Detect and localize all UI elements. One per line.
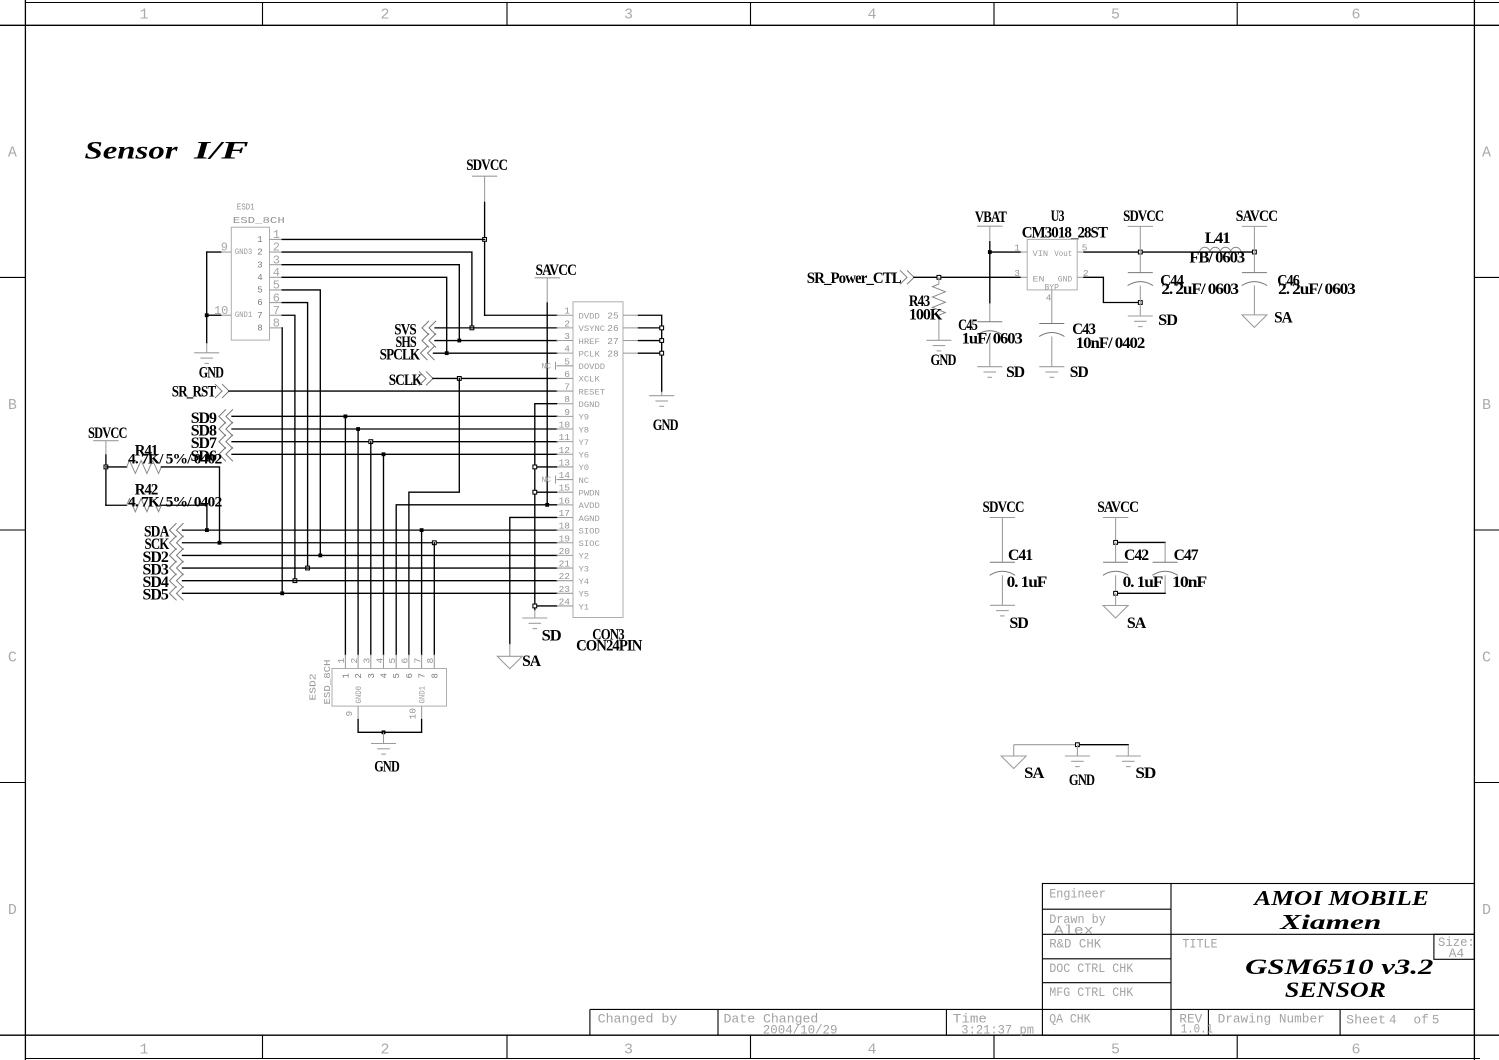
svg-text:NC: NC <box>579 477 590 486</box>
ground symbol SD (below CON3) <box>522 618 561 644</box>
svg-text:8: 8 <box>564 394 570 405</box>
svg-text:L41: L41 <box>1205 230 1231 247</box>
svg-text:NC: NC <box>542 476 552 485</box>
svg-text:2. 2uF/ 0603: 2. 2uF/ 0603 <box>1161 281 1239 298</box>
svg-text:ESD_8CH: ESD_8CH <box>233 215 285 226</box>
svg-text:NC: NC <box>542 362 552 371</box>
svg-text:SIOD: SIOD <box>579 527 601 536</box>
svg-text:EN: EN <box>1033 276 1045 285</box>
svg-text:4: 4 <box>564 344 570 355</box>
ground symbol SA (C46) <box>1242 310 1293 328</box>
svg-text:6: 6 <box>257 298 262 308</box>
wire U3 GND pin2 to C44 <box>1084 277 1142 304</box>
power symbol SAVCC (top right) <box>1236 208 1278 252</box>
wire ESD1 pin5 to SD2 <box>282 290 320 555</box>
svg-text:XCLK: XCLK <box>579 376 601 385</box>
power symbol SDVCC (top right) <box>1123 208 1164 252</box>
wire Vout to SDVCC / L41 <box>1084 250 1200 254</box>
svg-text:Y2: Y2 <box>579 553 590 562</box>
svg-text:SD: SD <box>542 627 561 644</box>
wire AVDD row to ESD2 pin5 <box>396 505 556 655</box>
svg-text:Engineer: Engineer <box>1049 887 1106 901</box>
svg-text:GND: GND <box>1058 276 1073 285</box>
svg-text:6: 6 <box>564 369 570 380</box>
svg-text:C42: C42 <box>1124 547 1149 564</box>
net label SD4 <box>143 574 558 591</box>
net label SHS <box>396 334 558 351</box>
power symbol SAVCC (mid) <box>535 262 577 303</box>
power symbol SDVCC (top) <box>466 157 507 202</box>
svg-text:10: 10 <box>559 420 571 431</box>
svg-text:2: 2 <box>380 7 389 24</box>
svg-text:VIN: VIN <box>1033 250 1049 259</box>
power symbol SAVCC (decoupling) <box>1097 499 1138 542</box>
svg-text:Xiamen: Xiamen <box>1279 910 1382 934</box>
svg-text:3: 3 <box>564 331 570 342</box>
svg-text:Y6: Y6 <box>579 452 590 461</box>
svg-text:10nF: 10nF <box>1172 574 1207 591</box>
svg-text:24: 24 <box>559 596 571 607</box>
wire SCLK to ESD2 pin6 <box>409 378 459 654</box>
svg-text:MFG CTRL CHK: MFG CTRL CHK <box>1049 986 1133 1000</box>
svg-text:GND3: GND3 <box>235 248 253 257</box>
svg-text:Y9: Y9 <box>579 414 590 423</box>
svg-text:B: B <box>8 397 17 414</box>
svg-text:4: 4 <box>1046 293 1052 304</box>
svg-text:C: C <box>1482 650 1491 667</box>
svg-text:2: 2 <box>349 658 360 664</box>
wire R41 to SCK <box>161 467 219 543</box>
svg-text:2: 2 <box>564 318 570 329</box>
svg-text:5: 5 <box>387 658 398 664</box>
svg-text:3: 3 <box>1014 268 1020 279</box>
svg-text:Y4: Y4 <box>579 578 590 587</box>
svg-text:SAVCC: SAVCC <box>536 262 577 279</box>
ground symbol SD (C45) <box>977 364 1024 381</box>
svg-text:SA: SA <box>1024 765 1045 782</box>
svg-text:C41: C41 <box>1008 547 1033 564</box>
inductor L41 FB/0603 <box>1189 230 1256 267</box>
net label SR_Power_CTL <box>807 270 1021 287</box>
svg-text:10: 10 <box>408 708 419 720</box>
svg-text:Sensor: Sensor <box>85 136 179 165</box>
svg-text:FB/ 0603: FB/ 0603 <box>1189 250 1245 267</box>
svg-text:A4: A4 <box>1449 947 1464 961</box>
wire C42/C47 bottom to SA <box>1114 591 1165 605</box>
resistor R42 4.7K/5%/0402 <box>106 482 222 512</box>
svg-text:3:21:37 pm: 3:21:37 pm <box>961 1023 1034 1037</box>
svg-text:4: 4 <box>257 273 262 283</box>
capacitor C41 0.1uF <box>990 547 1048 605</box>
svg-text:SDVCC: SDVCC <box>466 157 507 174</box>
svg-text:GND0: GND0 <box>355 686 364 704</box>
svg-text:4: 4 <box>374 658 385 664</box>
svg-text:3: 3 <box>362 658 373 664</box>
net label SD3 <box>143 561 558 578</box>
ground symbol GND (ESD2) <box>371 744 399 776</box>
svg-text:15: 15 <box>559 483 571 494</box>
svg-text:8: 8 <box>257 323 262 333</box>
svg-text:AVDD: AVDD <box>579 502 601 511</box>
svg-text:SA: SA <box>522 653 541 670</box>
svg-text:SR_Power_CTL: SR_Power_CTL <box>807 270 901 287</box>
svg-text:GND: GND <box>931 352 957 369</box>
svg-text:2: 2 <box>354 673 364 678</box>
svg-text:3: 3 <box>624 1042 633 1059</box>
svg-text:AGND: AGND <box>579 515 601 524</box>
svg-text:1: 1 <box>139 7 148 24</box>
svg-text:9: 9 <box>221 241 228 255</box>
net label SCLK <box>389 371 557 388</box>
svg-text:4: 4 <box>380 673 390 678</box>
svg-text:14: 14 <box>559 470 571 481</box>
svg-text:C: C <box>8 650 17 667</box>
svg-text:DGND: DGND <box>579 401 601 410</box>
net label SDA <box>144 523 557 540</box>
IC ESD1 ESD_8CH <box>214 202 285 341</box>
ground symbol SD (C43) <box>1039 364 1088 381</box>
svg-text:100K: 100K <box>909 306 943 323</box>
svg-text:ESD2: ESD2 <box>308 673 319 700</box>
title block table <box>590 884 1475 1036</box>
ground symbol SA (C42) <box>1103 606 1147 633</box>
svg-text:4: 4 <box>1389 1014 1397 1028</box>
IC U3 CM3018_28ST <box>1014 208 1108 324</box>
svg-text:D: D <box>1482 902 1491 919</box>
sheet title Sensor I/F <box>85 136 249 165</box>
svg-text:Y7: Y7 <box>579 439 590 448</box>
svg-text:GND: GND <box>199 365 224 382</box>
svg-text:18: 18 <box>559 521 571 532</box>
svg-text:PCLK: PCLK <box>579 350 601 359</box>
svg-text:Y3: Y3 <box>579 565 590 574</box>
svg-text:1: 1 <box>341 673 351 678</box>
svg-text:5: 5 <box>564 356 570 367</box>
svg-text:22: 22 <box>559 571 571 582</box>
wire SAVCC down to AVDD row <box>545 303 549 507</box>
svg-text:2: 2 <box>380 1042 389 1059</box>
svg-text:16: 16 <box>559 495 571 506</box>
svg-text:SDVCC: SDVCC <box>88 425 127 442</box>
svg-text:Changed by: Changed by <box>598 1013 678 1027</box>
wire ESD1 pins 9/10 to GND <box>205 252 221 353</box>
svg-text:7: 7 <box>257 311 262 321</box>
svg-text:Sheet: Sheet <box>1346 1013 1386 1027</box>
net label SD8 <box>191 422 557 440</box>
svg-text:13: 13 <box>559 457 571 468</box>
svg-text:HREF: HREF <box>579 338 601 347</box>
net label SCK <box>145 536 558 553</box>
svg-text:10nF/ 0402: 10nF/ 0402 <box>1076 335 1145 352</box>
wire SD7 to ESD2 pin3 <box>370 442 372 655</box>
ground symbol SD (C41) <box>990 605 1028 632</box>
svg-text:SIOC: SIOC <box>579 540 601 549</box>
ground symbol GND (ESD1) <box>194 353 223 382</box>
svg-text:GND1: GND1 <box>419 686 428 704</box>
svg-text:1uF/ 0603: 1uF/ 0603 <box>962 330 1023 347</box>
svg-text:A: A <box>1482 145 1491 162</box>
svg-text:ESD1: ESD1 <box>237 202 255 213</box>
wire ESD1 pin6 to SD3 <box>282 303 307 568</box>
power symbol SDVCC (left) <box>88 425 127 455</box>
title block field labels <box>598 887 1475 1037</box>
wire AGND to SA <box>510 517 557 656</box>
svg-text:D: D <box>8 902 17 919</box>
svg-text:1: 1 <box>1014 243 1020 254</box>
ground symbol GND (R43) <box>926 340 956 369</box>
wire R42 to SDA <box>161 505 207 530</box>
net label SPCLK <box>380 346 557 363</box>
svg-text:12: 12 <box>559 445 571 456</box>
svg-text:19: 19 <box>559 533 571 544</box>
svg-text:U3: U3 <box>1051 208 1065 225</box>
ground symbol SD (tie) <box>1116 756 1156 782</box>
svg-text:1: 1 <box>336 658 347 664</box>
svg-text:27: 27 <box>607 336 618 347</box>
resistor R41 4.7K/5%/0402 <box>106 442 222 473</box>
net label SD6 <box>191 447 558 465</box>
svg-text:8: 8 <box>425 658 436 664</box>
svg-text:CON24PIN: CON24PIN <box>576 637 643 654</box>
wire ESD1 pin8 to SD5 <box>281 328 283 593</box>
wire SD6 to ESD2 pin4 <box>383 454 385 654</box>
ground symbol GND (tie) <box>1065 756 1095 789</box>
svg-text:6: 6 <box>400 658 411 664</box>
svg-text:SD: SD <box>1009 615 1028 632</box>
svg-text:0. 1uF: 0. 1uF <box>1123 574 1164 591</box>
svg-text:5: 5 <box>257 286 262 296</box>
svg-text:1.0.1: 1.0.1 <box>1181 1023 1213 1037</box>
svg-text:SDVCC: SDVCC <box>1123 208 1164 225</box>
svg-text:5: 5 <box>1432 1014 1440 1028</box>
capacitor C43 10nF/0402 <box>1039 321 1145 367</box>
svg-text:Alex: Alex <box>1054 924 1094 938</box>
net label SD5 <box>143 586 558 603</box>
svg-text:A: A <box>8 145 17 162</box>
svg-text:23: 23 <box>559 584 571 595</box>
svg-text:8: 8 <box>430 673 440 678</box>
svg-text:DOC CTRL CHK: DOC CTRL CHK <box>1049 962 1133 976</box>
net label SR_RST <box>172 384 557 401</box>
svg-text:Y8: Y8 <box>579 426 590 435</box>
svg-text:26: 26 <box>607 323 619 334</box>
net label SD2 <box>143 548 558 565</box>
wire ESD2 pins 9/10 to GND <box>358 720 422 744</box>
svg-text:1: 1 <box>564 306 570 317</box>
svg-text:3: 3 <box>367 673 377 678</box>
svg-text:RESET: RESET <box>579 388 606 397</box>
wire DGND/Y0/PWDN/Y1 to SD ground <box>533 404 557 618</box>
svg-text:21: 21 <box>559 559 571 570</box>
svg-text:Y5: Y5 <box>579 591 590 600</box>
svg-text:Vout: Vout <box>1054 250 1072 259</box>
wire ESD1 pin3 to SHS <box>282 265 459 341</box>
capacitor C45 1uF/0603 <box>958 303 1023 366</box>
svg-text:SCLK: SCLK <box>389 372 423 389</box>
svg-text:SD: SD <box>1006 364 1024 381</box>
title block drawing title GSM6510 v3.2 SENSOR <box>1245 954 1433 1002</box>
svg-text:SD: SD <box>1135 765 1155 782</box>
svg-text:C47: C47 <box>1174 547 1199 564</box>
svg-text:4. 7K/ 5%/ 0402: 4. 7K/ 5%/ 0402 <box>128 494 222 510</box>
connector CON3 CON24PIN <box>542 302 643 655</box>
wire SD8 to ESD2 pin2 <box>357 429 359 655</box>
svg-text:DOVDD: DOVDD <box>579 363 606 372</box>
svg-text:6: 6 <box>1351 7 1360 24</box>
resistor R43 100K <box>909 277 946 340</box>
svg-text:1: 1 <box>139 1042 148 1059</box>
svg-text:GND: GND <box>1069 772 1095 789</box>
svg-text:8: 8 <box>273 317 280 331</box>
wire SCK to ESD2 pin8 <box>433 543 435 655</box>
wire SDVCC to R41/R42 <box>104 455 108 505</box>
svg-text:25: 25 <box>607 311 619 322</box>
svg-text:SD5: SD5 <box>143 587 169 604</box>
capacitor C46 2.2uF/0603 <box>1242 252 1356 315</box>
svg-text:20: 20 <box>559 546 571 557</box>
svg-text:GND1: GND1 <box>235 311 253 320</box>
svg-text:17: 17 <box>559 508 570 519</box>
svg-text:Y0: Y0 <box>579 464 590 473</box>
capacitor C42 0.1uF <box>1103 547 1164 593</box>
IC ESD2 ESD_8CH <box>308 655 447 720</box>
title block company name AMOI MOBILE Xiamen <box>1252 886 1429 934</box>
wire SAVCC to C42/C47 top <box>1114 541 1165 563</box>
svg-text:of: of <box>1414 1014 1429 1028</box>
svg-text:SD: SD <box>1070 364 1088 381</box>
svg-text:SD: SD <box>1158 312 1177 329</box>
svg-text:4. 7K/ 5%/ 0402: 4. 7K/ 5%/ 0402 <box>128 452 222 468</box>
svg-text:5: 5 <box>392 673 402 678</box>
net label SD9 <box>191 409 557 427</box>
wire ESD1 pin2 to SVS <box>282 252 472 328</box>
svg-text:11: 11 <box>559 432 571 443</box>
svg-text:GSM6510 v3.2: GSM6510 v3.2 <box>1245 954 1433 979</box>
net label SD7 <box>191 435 557 453</box>
svg-text:1: 1 <box>257 235 262 245</box>
svg-text:7: 7 <box>412 658 423 664</box>
svg-text:7: 7 <box>418 673 428 678</box>
svg-text:2. 2uF/ 0603: 2. 2uF/ 0603 <box>1278 281 1356 298</box>
svg-text:GND: GND <box>653 417 678 434</box>
svg-text:2: 2 <box>257 248 262 258</box>
wire SA-GND-SD tie <box>1014 743 1129 756</box>
svg-text:TITLE: TITLE <box>1182 938 1217 952</box>
svg-text:I/F: I/F <box>192 136 248 165</box>
svg-text:AMOI MOBILE: AMOI MOBILE <box>1252 886 1429 910</box>
wire SDVCC down to DVDD row <box>483 202 557 315</box>
wire CON3 pins 25-28 to GND <box>639 315 664 395</box>
svg-text:6: 6 <box>1351 1042 1360 1059</box>
svg-text:SAVCC: SAVCC <box>1097 499 1138 516</box>
svg-text:SA: SA <box>1274 310 1293 327</box>
svg-text:GND: GND <box>374 758 399 775</box>
svg-text:QA CHK: QA CHK <box>1049 1013 1091 1027</box>
svg-text:SDVCC: SDVCC <box>983 499 1024 516</box>
ground symbol SD (C44) <box>1128 312 1178 329</box>
ground symbol SA (tie) <box>1001 756 1045 782</box>
wire SDA to ESD2 pin7 <box>421 530 423 654</box>
wire SD9 to ESD2 pin1 <box>344 416 346 654</box>
svg-text:SR_RST: SR_RST <box>172 384 217 401</box>
svg-text:9: 9 <box>564 407 570 418</box>
svg-text:9: 9 <box>344 711 355 717</box>
svg-text:7: 7 <box>564 382 570 393</box>
svg-text:4: 4 <box>867 7 876 24</box>
svg-text:2004/10/29: 2004/10/29 <box>763 1023 838 1037</box>
svg-text:SPCLK: SPCLK <box>380 347 421 364</box>
svg-text:6: 6 <box>405 673 415 678</box>
svg-text:SAVCC: SAVCC <box>1236 208 1278 225</box>
svg-text:DVDD: DVDD <box>579 313 601 322</box>
svg-text:ESD_8CH: ESD_8CH <box>322 660 333 705</box>
wire VBAT to VIN <box>988 242 1021 303</box>
ground symbol GND (CON3 right) <box>649 396 678 434</box>
svg-text:VSYNC: VSYNC <box>579 325 606 334</box>
svg-text:3: 3 <box>624 7 633 24</box>
capacitor C47 10nF <box>1152 547 1207 593</box>
svg-text:Drawing Number: Drawing Number <box>1218 1012 1325 1026</box>
ground symbol SA (below CON3) <box>497 653 541 670</box>
svg-text:B: B <box>1482 397 1491 414</box>
svg-text:Y1: Y1 <box>579 603 590 612</box>
svg-text:PWDN: PWDN <box>579 490 601 499</box>
wire ESD1 pin4 to SPCLK <box>282 277 447 353</box>
svg-text:SENSOR: SENSOR <box>1285 977 1386 1002</box>
svg-text:0. 1uF: 0. 1uF <box>1007 574 1048 591</box>
svg-text:SA: SA <box>1127 615 1147 632</box>
svg-text:4: 4 <box>867 1042 876 1059</box>
net label SVS <box>394 321 557 338</box>
power symbol SDVCC (decoupling) <box>983 499 1024 562</box>
svg-text:VBAT: VBAT <box>975 209 1007 226</box>
svg-text:3: 3 <box>257 260 262 270</box>
svg-text:5: 5 <box>1111 7 1120 24</box>
wire ESD1 pin7 to SD4 <box>282 315 295 580</box>
power symbol VBAT <box>975 209 1007 242</box>
svg-text:R&D CHK: R&D CHK <box>1049 937 1101 951</box>
capacitor C44 2.2uF/0603 <box>1128 252 1239 316</box>
wire ESD1 pin1 to SDVCC net <box>282 238 484 240</box>
svg-text:5: 5 <box>1111 1042 1120 1059</box>
svg-text:28: 28 <box>607 348 619 359</box>
